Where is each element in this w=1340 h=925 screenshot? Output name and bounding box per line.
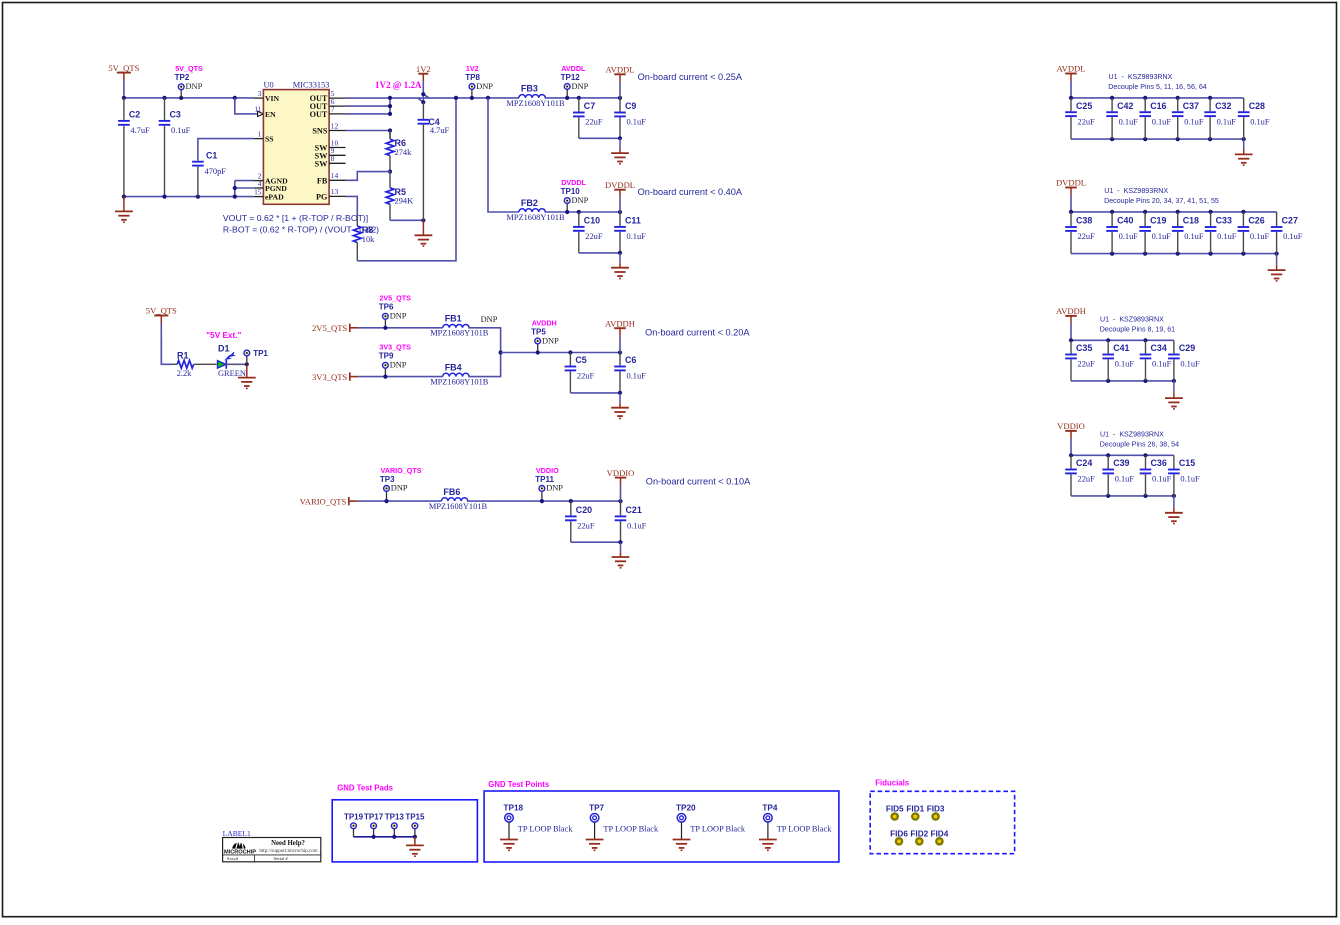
- svg-text:C19: C19: [1150, 216, 1166, 226]
- wire AGND/PGND/ePAD stubs: [235, 180, 254, 182]
- test point TP1: [244, 349, 269, 364]
- test point TP2: [175, 64, 203, 98]
- capacitor C40: [1106, 212, 1138, 254]
- junction: [1143, 453, 1147, 457]
- svg-text:R6: R6: [395, 138, 407, 148]
- svg-text:On-board current < 0.40A: On-board current < 0.40A: [638, 187, 743, 197]
- wire OUT6: [346, 105, 391, 107]
- wire FB4 to node: [468, 353, 500, 377]
- ground: [500, 839, 518, 850]
- svg-text:Decouple Pins 8, 19, 61: Decouple Pins 8, 19, 61: [1100, 325, 1175, 333]
- junction: [1106, 338, 1110, 342]
- fiducial FID3: [927, 805, 945, 820]
- power flag AVDDH: [605, 318, 635, 352]
- svg-text:0.1uF: 0.1uF: [1152, 232, 1172, 241]
- svg-text:5V_QTS: 5V_QTS: [108, 63, 139, 73]
- ground: [1235, 139, 1253, 165]
- junction: [618, 391, 622, 395]
- capacitor C21: [615, 501, 647, 542]
- svg-text:0.1uF: 0.1uF: [1283, 232, 1303, 241]
- ferrite bead FB4: [430, 362, 489, 386]
- svg-text:C35: C35: [1076, 343, 1092, 353]
- junction: [1209, 252, 1213, 256]
- capacitor C28: [1238, 98, 1270, 139]
- port 2V5_QTS: [312, 323, 358, 333]
- junction: [618, 251, 622, 255]
- svg-text:U1 - KSZ9893RNX: U1 - KSZ9893RNX: [1109, 73, 1173, 81]
- resistor R5 294K (R-BOT): [386, 172, 413, 221]
- capacitor C1: [192, 150, 226, 196]
- junction FB node: [388, 170, 392, 174]
- svg-text:U1 - KSZ9893RNX: U1 - KSZ9893RNX: [1100, 431, 1164, 439]
- svg-text:C1: C1: [206, 150, 217, 160]
- wire 5V to R1: [161, 340, 172, 364]
- test point TP12: [561, 64, 589, 98]
- svg-text:Decouple Pins 26, 38, 54: Decouple Pins 26, 38, 54: [1100, 440, 1179, 448]
- pin 12 SNS of U0: [312, 121, 345, 135]
- wire VDDIO top rail: [1071, 454, 1174, 456]
- wire 1V2 down to FB2: [488, 98, 519, 212]
- wire AVDDL top rail: [1071, 97, 1244, 99]
- junction: [454, 96, 458, 100]
- svg-text:294K: 294K: [395, 197, 414, 206]
- pin 7 OUT of U0: [310, 105, 346, 119]
- junction: [388, 96, 392, 100]
- svg-text:13: 13: [331, 187, 339, 196]
- test pad TP17: [364, 813, 384, 837]
- wire R8 to 1V2 rail: [357, 98, 456, 261]
- microchip label box: [223, 838, 321, 862]
- pin 15 ePAD of U0: [254, 187, 284, 201]
- svg-text:C18: C18: [1183, 216, 1199, 226]
- wire R5 to C4 bottom: [390, 219, 423, 221]
- svg-text:GND Test Points: GND Test Points: [488, 780, 550, 789]
- junction: [1143, 137, 1147, 141]
- junction: [413, 835, 417, 839]
- svg-text:1V2: 1V2: [466, 64, 479, 73]
- svg-text:DVDDL: DVDDL: [605, 180, 635, 190]
- junction: [421, 218, 425, 222]
- svg-text:TP17: TP17: [364, 813, 384, 822]
- svg-text:0.1uF: 0.1uF: [171, 126, 191, 135]
- svg-text:TP20: TP20: [676, 803, 696, 812]
- svg-text:DNP: DNP: [186, 82, 203, 91]
- wire FB2 to C11: [545, 211, 621, 213]
- fiducial FID5: [886, 805, 904, 820]
- svg-text:D1: D1: [218, 343, 230, 353]
- capacitor C7: [573, 98, 603, 138]
- capacitor C41: [1102, 340, 1134, 381]
- wire C5/C6 bottom: [570, 392, 620, 394]
- EN input triangle: [258, 111, 264, 116]
- svg-text:FB3: FB3: [521, 84, 538, 94]
- junction: [1242, 137, 1246, 141]
- junction: [618, 210, 622, 214]
- svg-text:AVDDH: AVDDH: [532, 318, 557, 327]
- wire SS to C1: [198, 139, 254, 160]
- svg-text:0.1uF: 0.1uF: [1119, 117, 1139, 126]
- test pad TP13: [385, 813, 405, 837]
- svg-text:C27: C27: [1282, 216, 1298, 226]
- svg-text:DNP: DNP: [391, 484, 408, 493]
- svg-text:DNP: DNP: [476, 82, 493, 91]
- wire C10/C11 bottom: [579, 252, 620, 254]
- svg-text:15: 15: [254, 187, 262, 196]
- svg-text:470pF: 470pF: [205, 167, 227, 176]
- ground: [611, 253, 629, 279]
- svg-text:FID3: FID3: [927, 805, 945, 814]
- capacitor C33: [1205, 212, 1237, 254]
- junction: [1143, 379, 1147, 383]
- svg-text:TP LOOP Black: TP LOOP Black: [518, 824, 574, 833]
- junction: [470, 96, 474, 100]
- junction: [1069, 453, 1073, 457]
- svg-text:0.1uF: 0.1uF: [1180, 475, 1200, 484]
- svg-text:C38: C38: [1076, 216, 1092, 226]
- svg-text:FB1: FB1: [445, 314, 462, 324]
- note U1 decoupling AVDDL: [1108, 73, 1207, 91]
- junction: [162, 195, 166, 199]
- ground: [115, 197, 133, 223]
- svg-text:TP4: TP4: [762, 803, 777, 812]
- svg-text:TP9: TP9: [379, 352, 394, 361]
- svg-text:TP3: TP3: [380, 475, 395, 484]
- svg-text:FID6: FID6: [890, 829, 908, 838]
- svg-text:C33: C33: [1216, 216, 1232, 226]
- wire FB1 to node: [468, 328, 500, 353]
- junction: [618, 136, 622, 140]
- svg-text:MPZ1608Y101B: MPZ1608Y101B: [430, 378, 489, 387]
- svg-text:FB2: FB2: [521, 198, 538, 208]
- svg-text:22uF: 22uF: [585, 118, 603, 127]
- junction: [162, 96, 166, 100]
- junction: [1176, 137, 1180, 141]
- wire PG to R8: [346, 196, 358, 217]
- junction: [196, 195, 200, 199]
- test point loop TP7: [589, 803, 659, 839]
- junction: [1176, 96, 1180, 100]
- svg-text:DNP: DNP: [546, 484, 563, 493]
- svg-text:R8: R8: [362, 225, 374, 235]
- junction: [233, 96, 237, 100]
- pin 10 SW of U0: [315, 138, 346, 152]
- svg-text:8: 8: [331, 154, 335, 163]
- svg-text:U1 - KSZ9893RNX: U1 - KSZ9893RNX: [1104, 187, 1168, 195]
- power flag AVDDH: [1056, 306, 1086, 340]
- svg-text:SS: SS: [265, 135, 274, 144]
- resistor R8 10k (PG pull-up): [353, 218, 375, 261]
- test pad TP19: [344, 813, 364, 837]
- note U1 decoupling VDDIO: [1100, 431, 1179, 449]
- svg-text:DNP: DNP: [572, 82, 589, 91]
- capacitor C5: [565, 353, 595, 393]
- svg-text:R5: R5: [395, 187, 407, 197]
- svg-text:FID4: FID4: [931, 829, 949, 838]
- capacitor C6: [614, 353, 646, 393]
- wire C20/C21 bottom: [571, 541, 621, 543]
- microchip logo: [224, 840, 256, 856]
- svg-text:Assy#: Assy#: [227, 856, 239, 861]
- svg-text:1V2 @ 1.2A: 1V2 @ 1.2A: [375, 80, 422, 90]
- wire DVDDL bottom rail: [1071, 253, 1277, 255]
- power flag DVDDL: [605, 180, 635, 212]
- svg-text:TP8: TP8: [465, 73, 480, 82]
- svg-text:EN: EN: [265, 110, 276, 119]
- pin 3 VIN of U0: [254, 89, 280, 103]
- svg-text:TP LOOP Black: TP LOOP Black: [690, 824, 746, 833]
- ground: [1268, 254, 1286, 281]
- test point TP5: [531, 318, 559, 352]
- svg-text:C28: C28: [1249, 101, 1265, 111]
- svg-text:C3: C3: [170, 110, 181, 120]
- capacitor C10: [573, 212, 603, 253]
- junction: [540, 499, 544, 503]
- svg-text:Need Help?: Need Help?: [271, 840, 305, 847]
- svg-text:Decouple Pins 5, 11, 16, 56, 6: Decouple Pins 5, 11, 16, 56, 64: [1108, 83, 1207, 91]
- ground: [612, 542, 630, 568]
- svg-text:FID1: FID1: [906, 805, 924, 814]
- junction: [384, 499, 388, 503]
- svg-text:22uF: 22uF: [577, 372, 595, 381]
- test point TP9: [379, 343, 411, 377]
- junction: [1176, 210, 1180, 214]
- capacitor C36: [1140, 455, 1172, 496]
- svg-text:0.1uF: 0.1uF: [1119, 232, 1139, 241]
- svg-text:ePAD: ePAD: [265, 193, 284, 202]
- wire VDDIO bottom rail: [1071, 495, 1174, 497]
- svg-text:C26: C26: [1248, 216, 1264, 226]
- svg-text:C32: C32: [1215, 101, 1231, 111]
- wire OUT rail 1V2: [346, 97, 519, 99]
- svg-text:C42: C42: [1117, 101, 1133, 111]
- pin 4 PGND of U0: [254, 179, 287, 193]
- svg-text:0.1uF: 0.1uF: [1115, 360, 1135, 369]
- junction: [122, 195, 126, 199]
- svg-text:C25: C25: [1076, 101, 1092, 111]
- svg-text:AVDDL: AVDDL: [561, 64, 586, 73]
- svg-text:0.1uF: 0.1uF: [1217, 117, 1237, 126]
- svg-text:7: 7: [331, 105, 335, 114]
- capacitor C32: [1204, 98, 1236, 139]
- svg-text:4.7uF: 4.7uF: [430, 126, 450, 135]
- capacitor C11: [614, 212, 646, 253]
- capacitor C27: [1271, 212, 1303, 254]
- junction: [1143, 210, 1147, 214]
- svg-text:C15: C15: [1179, 458, 1195, 468]
- svg-text:0.1uF: 0.1uF: [1184, 232, 1204, 241]
- svg-text:1: 1: [258, 129, 262, 138]
- svg-text:C2: C2: [129, 110, 140, 120]
- junction: [618, 540, 622, 544]
- fiducial FID6: [890, 829, 908, 844]
- wire AVDDH top rail: [1071, 339, 1174, 341]
- junction: [1143, 96, 1147, 100]
- svg-text:TP LOOP Black: TP LOOP Black: [777, 824, 833, 833]
- svg-text:MPZ1608Y101B: MPZ1608Y101B: [429, 502, 488, 511]
- svg-text:TP2: TP2: [175, 73, 190, 82]
- pin 6 OUT of U0: [310, 97, 346, 111]
- wire FB6 to C21: [467, 500, 621, 502]
- wire 1V2 stem jog: [423, 94, 429, 98]
- capacitor C9: [614, 98, 646, 138]
- op-amp U0 MIC33153 regulator body: [263, 80, 329, 204]
- svg-text:C41: C41: [1113, 343, 1129, 353]
- svg-text:GND Test Pads: GND Test Pads: [337, 784, 393, 793]
- svg-text:TP12: TP12: [561, 73, 581, 82]
- svg-text:0.1uF: 0.1uF: [1180, 360, 1200, 369]
- svg-text:14: 14: [331, 171, 339, 180]
- pin 13 PG of U0: [316, 187, 345, 201]
- junction: [1106, 379, 1110, 383]
- svg-text:FB6: FB6: [443, 487, 460, 497]
- svg-text:DNP: DNP: [572, 196, 589, 205]
- svg-text:VARIO_QTS: VARIO_QTS: [381, 466, 422, 475]
- resistor R6 274k (R-TOP): [389, 131, 391, 139]
- svg-text:AVDDH: AVDDH: [605, 318, 635, 328]
- svg-text:DVDDL: DVDDL: [1056, 178, 1086, 188]
- svg-text:SNS: SNS: [312, 127, 327, 136]
- svg-text:R1: R1: [177, 351, 189, 361]
- test point TP10: [561, 178, 589, 212]
- svg-text:0.1uF: 0.1uF: [627, 232, 647, 241]
- junction: [536, 350, 540, 354]
- svg-text:TP11: TP11: [535, 475, 554, 484]
- junction: [1110, 96, 1114, 100]
- wire AVDDH rail: [501, 352, 620, 354]
- ground: [1165, 381, 1183, 409]
- svg-text:MPZ1608Y101B: MPZ1608Y101B: [506, 99, 565, 108]
- junction: [1106, 494, 1110, 498]
- svg-text:5V_QTS: 5V_QTS: [146, 306, 177, 316]
- capacitor C16: [1139, 98, 1171, 139]
- note U1 decoupling DVDDL: [1104, 187, 1219, 205]
- test pad TP15: [405, 813, 425, 837]
- wire 2V5 rail: [358, 327, 442, 329]
- capacitor C18: [1172, 212, 1204, 254]
- junction: [233, 186, 237, 190]
- junction: [1208, 137, 1212, 141]
- svg-text:Decouple Pins 20, 34, 37, 41,: Decouple Pins 20, 34, 37, 41, 51, 55: [1104, 197, 1219, 205]
- svg-text:2V5_QTS: 2V5_QTS: [312, 323, 348, 333]
- junction: [383, 375, 387, 379]
- svg-text:http://support.microchip.com: http://support.microchip.com: [259, 849, 317, 854]
- port VARIO_QTS: [300, 497, 358, 507]
- wire 3V3 rail: [358, 376, 442, 378]
- power flag 1V2: [416, 64, 431, 94]
- junction: [1208, 96, 1212, 100]
- junction: [499, 350, 503, 354]
- svg-text:DNP: DNP: [390, 361, 407, 370]
- pin 8 SW of U0: [315, 154, 346, 168]
- junction: [1069, 338, 1073, 342]
- svg-text:22uF: 22uF: [577, 522, 595, 531]
- svg-text:"5V Ext.": "5V Ext.": [206, 331, 241, 340]
- svg-text:Fiducials: Fiducials: [875, 779, 909, 788]
- svg-text:DNP: DNP: [390, 312, 407, 321]
- svg-text:0.1uF: 0.1uF: [627, 372, 647, 381]
- junction: [421, 100, 425, 104]
- svg-text:22uF: 22uF: [1078, 475, 1096, 484]
- test point loop TP20: [676, 803, 746, 839]
- svg-text:0.1uF: 0.1uF: [627, 118, 647, 127]
- svg-text:OUT: OUT: [310, 110, 328, 119]
- test point TP6: [379, 294, 411, 328]
- svg-text:11: 11: [254, 105, 261, 114]
- svg-text:22uF: 22uF: [1078, 117, 1096, 126]
- svg-text:MPZ1608Y101B: MPZ1608Y101B: [506, 213, 565, 222]
- junction: [618, 96, 622, 100]
- fiducial FID2: [910, 829, 928, 844]
- junction: [1209, 210, 1213, 214]
- junction: [1106, 453, 1110, 457]
- svg-text:22uF: 22uF: [1078, 360, 1096, 369]
- junction: [1143, 494, 1147, 498]
- capacitor C38: [1065, 212, 1095, 254]
- svg-text:On-board current < 0.25A: On-board current < 0.25A: [638, 72, 743, 82]
- wire gnd pads bus: [354, 836, 415, 838]
- svg-text:C37: C37: [1183, 101, 1199, 111]
- capacitor C2: [118, 98, 150, 197]
- pin 9 SW of U0: [315, 146, 346, 160]
- junction: [245, 362, 249, 366]
- fiducial FID1: [906, 805, 924, 820]
- ground: [586, 839, 604, 850]
- junction: [1143, 338, 1147, 342]
- svg-text:4.7uF: 4.7uF: [130, 126, 150, 135]
- ferrite bead FB6: [429, 487, 488, 511]
- svg-text:C5: C5: [575, 355, 586, 365]
- wire bottom rail AGND/PGND: [124, 196, 235, 198]
- ground: [611, 138, 629, 164]
- svg-text:5V_QTS: 5V_QTS: [175, 64, 203, 73]
- junction: [1172, 379, 1176, 383]
- svg-text:274k: 274k: [395, 148, 413, 157]
- svg-text:TP18: TP18: [504, 803, 524, 812]
- capacitor C42: [1106, 98, 1138, 139]
- svg-text:TP6: TP6: [379, 303, 394, 312]
- junction: [179, 96, 183, 100]
- wire VARIO rail: [357, 500, 441, 502]
- svg-text:TP LOOP Black: TP LOOP Black: [603, 824, 659, 833]
- svg-text:PG: PG: [316, 192, 328, 201]
- pin 2 AGND of U0: [254, 171, 288, 185]
- capacitor C19: [1139, 212, 1171, 254]
- svg-text:22uF: 22uF: [585, 232, 603, 241]
- power flag AVDDL: [606, 65, 635, 98]
- wire top rail 5V_QTS: [124, 97, 254, 99]
- svg-text:C24: C24: [1076, 458, 1092, 468]
- svg-text:On-board current < 0.20A: On-board current < 0.20A: [645, 327, 750, 337]
- svg-text:VDDIO: VDDIO: [607, 468, 635, 478]
- svg-text:2.2k: 2.2k: [177, 369, 192, 378]
- test point loop TP18: [504, 803, 574, 839]
- power flag DVDDL: [1056, 178, 1086, 212]
- svg-text:0.1uF: 0.1uF: [627, 522, 647, 531]
- svg-text:FB4: FB4: [445, 362, 462, 372]
- ground: [611, 393, 629, 419]
- junction: [577, 96, 581, 100]
- fiducials dashed box: [870, 791, 1014, 853]
- power flag VDDIO: [607, 468, 635, 501]
- svg-text:LABEL1: LABEL1: [223, 829, 251, 838]
- svg-text:AVDDH: AVDDH: [1056, 306, 1086, 316]
- test point TP11: [535, 466, 563, 501]
- junction: [1275, 252, 1279, 256]
- capacitor C25: [1065, 98, 1095, 139]
- pin 11 EN of U0: [254, 105, 276, 119]
- wire C7/C9 bottom: [579, 137, 620, 139]
- power flag 5V_QTS (input): [108, 63, 139, 98]
